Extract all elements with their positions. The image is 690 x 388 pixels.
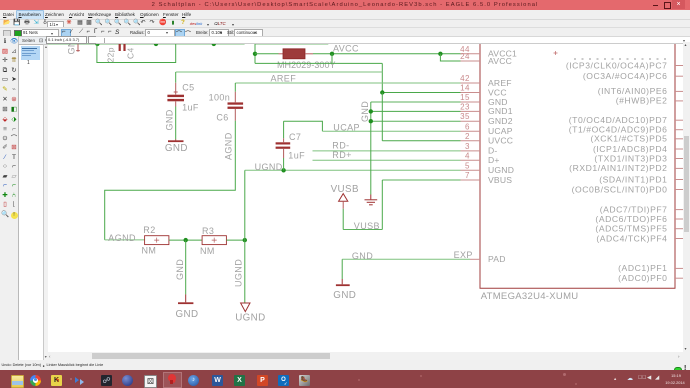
svg-text:100n: 100n: [209, 92, 231, 102]
svg-text:C5: C5: [182, 83, 194, 93]
svg-text:UCAP: UCAP: [333, 123, 360, 133]
svg-text:AGND: AGND: [224, 132, 234, 160]
pin lead left of L1: [279, 53, 284, 55]
svg-text:(SDA/INT1)PD1: (SDA/INT1)PD1: [599, 174, 667, 184]
wire lower AVCC bus y63: [255, 62, 382, 64]
svg-text:EXP: EXP: [454, 250, 473, 260]
wire VCC down to UVCC: [381, 93, 383, 141]
svg-text:5: 5: [465, 161, 470, 170]
svg-text:(OC0B/SCL/INT0)PD0: (OC0B/SCL/INT0)PD0: [572, 184, 668, 194]
svg-text:AVCC: AVCC: [488, 56, 512, 66]
junction AVCC x440: [438, 52, 442, 56]
wire GND2 pin35 row: [371, 120, 461, 122]
svg-text:GND: GND: [352, 251, 373, 261]
svg-text:C4: C4: [126, 47, 136, 59]
wire C6 to AGND: [105, 121, 236, 240]
svg-text:VUSB: VUSB: [354, 221, 380, 231]
svg-text:NM: NM: [142, 245, 157, 255]
ground UGND supply symbol triangle: [241, 303, 250, 312]
junction bead input: [253, 52, 257, 56]
wire R2 to R3: [169, 239, 202, 241]
wire C5 to GND: [175, 107, 177, 140]
svg-text:15: 15: [460, 93, 470, 102]
ground GND supply stub top-left: [76, 44, 80, 52]
svg-text:1uF: 1uF: [288, 150, 305, 160]
svg-text:(TXD1/INT3)PD3: (TXD1/INT3)PD3: [594, 153, 667, 163]
svg-text:(ADC5/TMS)PF5: (ADC5/TMS)PF5: [595, 224, 667, 234]
ground GND symbol under C5: [168, 139, 184, 141]
wire GND net pin15 row: [371, 101, 461, 103]
svg-text:MH2029-300Y: MH2029-300Y: [277, 60, 336, 70]
svg-text:AVCC: AVCC: [333, 43, 359, 53]
wire bead input branch: [254, 44, 256, 64]
svg-text:(INT6/AIN0)PE6: (INT6/AIN0)PE6: [598, 86, 668, 96]
svg-text:(#HWB)PE2: (#HWB)PE2: [616, 96, 668, 106]
pin C6 top lead: [234, 92, 236, 103]
svg-text:GND1: GND1: [488, 106, 513, 116]
svg-text:C7: C7: [289, 132, 301, 142]
wire GND drop from R2 junction: [185, 240, 187, 294]
wire VBUS down to VUSB: [381, 180, 383, 230]
svg-text:GND: GND: [176, 309, 199, 320]
svg-text:GND2: GND2: [488, 116, 513, 126]
wire to ferrite bead: [255, 53, 279, 55]
wire AVCC to lower bus: [331, 54, 333, 64]
wire top AVCC rail left: [48, 43, 245, 45]
svg-text:R3: R3: [202, 226, 214, 236]
svg-text:1uF: 1uF: [182, 103, 199, 113]
svg-text:24: 24: [460, 52, 470, 61]
svg-text:(XCK1/#CTS)PD5: (XCK1/#CTS)PD5: [591, 134, 668, 144]
wire UCAP down to C7: [283, 121, 285, 138]
svg-text:(ADC6/TDO)PF6: (ADC6/TDO)PF6: [595, 214, 667, 224]
resistor R3 body: [202, 236, 226, 245]
svg-text:2: 2: [465, 132, 470, 141]
wire C7 to UGND rail: [283, 158, 285, 170]
svg-text:GND: GND: [67, 42, 77, 55]
svg-text:RD-: RD-: [332, 141, 349, 151]
svg-text:14: 14: [460, 84, 470, 93]
svg-text:VBUS: VBUS: [488, 175, 512, 185]
svg-text:4: 4: [465, 151, 470, 160]
svg-text:GND: GND: [333, 290, 356, 301]
svg-text:UGND: UGND: [234, 259, 244, 287]
wire UGND drop from R3 junction: [244, 240, 246, 303]
svg-text:(ICP3/CLK0/OC4A)PC7: (ICP3/CLK0/OC4A)PC7: [566, 60, 668, 70]
node origin cross U1: [554, 51, 558, 55]
wire UCAP net with jog: [284, 121, 323, 131]
wire C4 bypass loop: [97, 44, 176, 63]
wire top rail right portion: [255, 42, 328, 44]
svg-text:GND: GND: [360, 101, 370, 122]
inductor ferrite bead L1 body: [283, 49, 305, 59]
wire AVCC drop to pin 24: [440, 54, 460, 61]
wire PAD gnd drop: [341, 259, 343, 279]
capacitor C4 plates: [119, 41, 126, 51]
junction on rail x156: [154, 42, 158, 46]
svg-text:GND: GND: [165, 143, 188, 154]
pin C5 top lead: [174, 83, 178, 95]
svg-text:(RXD1/AIN1/INT2)PD2: (RXD1/AIN1/INT2)PD2: [569, 163, 667, 173]
svg-text:3: 3: [465, 142, 470, 151]
svg-text:D+: D+: [488, 155, 500, 165]
pins U1 left stubs: [461, 54, 481, 259]
wire RD- net: [313, 150, 461, 152]
svg-text:(OC3A/#OC4A)PC6: (OC3A/#OC4A)PC6: [583, 71, 668, 81]
wire VBUS pin7 row: [382, 179, 460, 181]
op-amp IC U1 ATMEGA32U4 outline: [480, 42, 675, 288]
svg-text:UGND: UGND: [488, 165, 514, 175]
window buttons: [653, 5, 658, 7]
svg-text:(ADC4/TCK)PF4: (ADC4/TCK)PF4: [596, 233, 667, 243]
svg-text:R2: R2: [143, 225, 155, 235]
svg-text:UCAP: UCAP: [488, 126, 513, 136]
wire VCC pin14 row: [382, 92, 460, 94]
junction GND at R2 right: [184, 238, 188, 242]
pin names U1 left column: [488, 49, 517, 265]
wire UGND rail: [245, 169, 461, 171]
svg-text:(T0/OC4D/ADC10)PD7: (T0/OC4D/ADC10)PD7: [569, 115, 668, 125]
svg-text:C6: C6: [216, 112, 228, 122]
wire AREF riser to C6: [234, 83, 236, 92]
svg-text:GND: GND: [165, 109, 175, 130]
pin C5 bottom lead: [175, 101, 177, 106]
pin C7 top lead: [283, 138, 285, 142]
svg-text:6: 6: [465, 122, 470, 131]
wire RD+ net: [313, 159, 461, 161]
wire GND vertical to earth: [370, 102, 372, 195]
svg-text:UGND: UGND: [235, 313, 265, 324]
svg-text:35: 35: [460, 112, 470, 121]
pins U1 right stubs: [675, 66, 684, 279]
junction on rail x97: [95, 42, 99, 46]
pin C6 bottom lead: [234, 109, 236, 121]
svg-text:(ADC1)PF1: (ADC1)PF1: [618, 263, 667, 273]
svg-text:(ICP1/ADC8)PD4: (ICP1/ADC8)PD4: [593, 144, 668, 154]
junction GND1: [369, 109, 373, 113]
ground GND symbol under PAD wire: [336, 279, 350, 285]
pin VUSB supply lead: [342, 201, 344, 209]
supply VUSB triangle: [339, 194, 348, 202]
pin lead right of L1: [305, 53, 313, 55]
svg-text:ATMEGA32U4-XUMU: ATMEGA32U4-XUMU: [481, 291, 579, 302]
svg-text:7: 7: [465, 171, 470, 180]
svg-text:VUSB: VUSB: [331, 184, 359, 195]
junction UGND at R3 right: [243, 238, 247, 242]
capacitor C6 plates: [228, 102, 244, 109]
wire riser x382 to VCC: [381, 63, 383, 92]
svg-text:UVCC: UVCC: [488, 136, 513, 146]
node dotted marks row inside U1: [574, 58, 670, 60]
svg-text:42: 42: [460, 74, 470, 83]
junction C7 on UGND rail: [281, 168, 285, 172]
pin names U1 right column: [566, 60, 668, 283]
svg-text:PAD: PAD: [488, 254, 506, 264]
pin numbers U1 left: [460, 45, 470, 180]
junction AVCC x332: [330, 52, 334, 56]
svg-text:AGND: AGND: [108, 233, 136, 243]
junction on rail x214: [212, 42, 216, 46]
pin C7 bottom lead: [283, 149, 285, 158]
svg-text:NM: NM: [200, 246, 215, 256]
capacitor C7 plates: [276, 142, 291, 149]
wire R3 to UGND drop: [226, 239, 244, 241]
svg-text:VCC: VCC: [488, 87, 507, 97]
wire AVCC rail to IC: [313, 53, 461, 55]
wire GND to PAD exposed pad: [342, 258, 470, 260]
svg-text:23: 23: [460, 102, 470, 111]
ground earth symbol: [365, 195, 378, 205]
svg-text:22p: 22p: [106, 47, 116, 62]
resistor R2 body: [145, 236, 169, 245]
wire C5 top net y72: [176, 71, 383, 73]
wire C5 riser: [175, 72, 177, 83]
wire VUSB supply to rail: [342, 209, 344, 230]
wire UVCC pin2 row: [382, 140, 460, 142]
wire AGND row to R2: [105, 239, 145, 241]
svg-text:RD+: RD+: [332, 150, 351, 160]
svg-text:(ADC0)PF0: (ADC0)PF0: [618, 273, 667, 283]
junction VCC: [380, 90, 384, 94]
ground GND symbol below R2: [178, 294, 193, 303]
wire GND1 pin23 row: [371, 110, 461, 112]
svg-text:AREF: AREF: [271, 74, 297, 84]
svg-text:GND: GND: [175, 259, 185, 280]
wire AREF net: [235, 82, 460, 84]
svg-text:UGND: UGND: [255, 162, 283, 172]
capacitor C5 plates: [167, 95, 184, 102]
svg-text:AREF: AREF: [488, 78, 512, 88]
wire VUSB horizontal: [343, 229, 382, 231]
junction GND2: [369, 119, 373, 123]
